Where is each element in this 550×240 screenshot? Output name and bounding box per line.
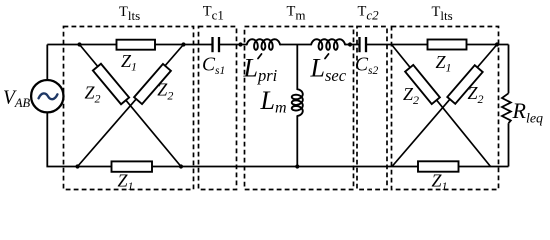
wire source top — [46, 45, 48, 81]
inductor Lm — [292, 89, 303, 116]
resistor Z2 lattice2 right diagonal — [447, 65, 482, 104]
resistor Z2 lattice2 left diagonal — [405, 65, 440, 104]
prime L'sec — [325, 54, 329, 59]
source VAB sine — [39, 93, 58, 99]
capacitor Cs1 — [213, 37, 220, 52]
source VAB circle — [31, 80, 63, 112]
wire Lm top — [296, 45, 298, 90]
node dot lattice1 TR — [181, 42, 185, 46]
node dot lattice2 TR — [495, 42, 499, 46]
wire top rail cap1 to coil1 — [219, 44, 247, 46]
wire lattice1 diagonal A — [80, 45, 182, 167]
node dot after Cs1 — [238, 42, 242, 46]
resistor Rleq zigzag — [502, 93, 511, 123]
node dot before Cs2 — [348, 42, 352, 46]
resistor Z1 lattice2 bottom — [418, 161, 459, 171]
capacitor Cs2 — [360, 37, 367, 52]
node dot Lm bottom — [295, 164, 299, 168]
resistor Z1 lattice1 top — [117, 40, 156, 50]
box T_m — [245, 27, 354, 190]
resistor Z1 lattice2 top — [428, 40, 467, 50]
wire Lm bottom — [296, 116, 298, 167]
node dot lattice1 BR — [179, 164, 183, 168]
wire right below resistor — [508, 123, 510, 166]
resistor Z2 lattice1 right diagonal — [134, 64, 171, 104]
box T_lts left — [64, 27, 194, 190]
resistor Z1 lattice1 bottom — [112, 161, 153, 171]
wire coil2 to cap2 — [345, 44, 360, 46]
box T_c1 — [199, 27, 237, 190]
box T_lts right — [392, 27, 499, 190]
inductor L'pri — [247, 39, 280, 50]
wire coil1 to coil2 — [280, 44, 311, 46]
wire top rail left — [47, 44, 212, 46]
node dot lattice1 BL — [75, 164, 79, 168]
prime L'pri — [258, 54, 262, 59]
resistor Z2 lattice1 left diagonal — [93, 64, 129, 105]
wire right drop — [508, 45, 510, 94]
node dot lattice1 TL — [77, 42, 81, 46]
wire lattice1 diagonal B — [78, 45, 184, 167]
inductor L'sec — [311, 39, 345, 50]
wire lattice2 diagonal B — [392, 45, 497, 167]
box T_c2 — [357, 27, 387, 190]
wire lattice2 diagonal A — [392, 45, 491, 167]
wire source bottom — [47, 112, 508, 166]
wire top rail right — [366, 44, 509, 46]
